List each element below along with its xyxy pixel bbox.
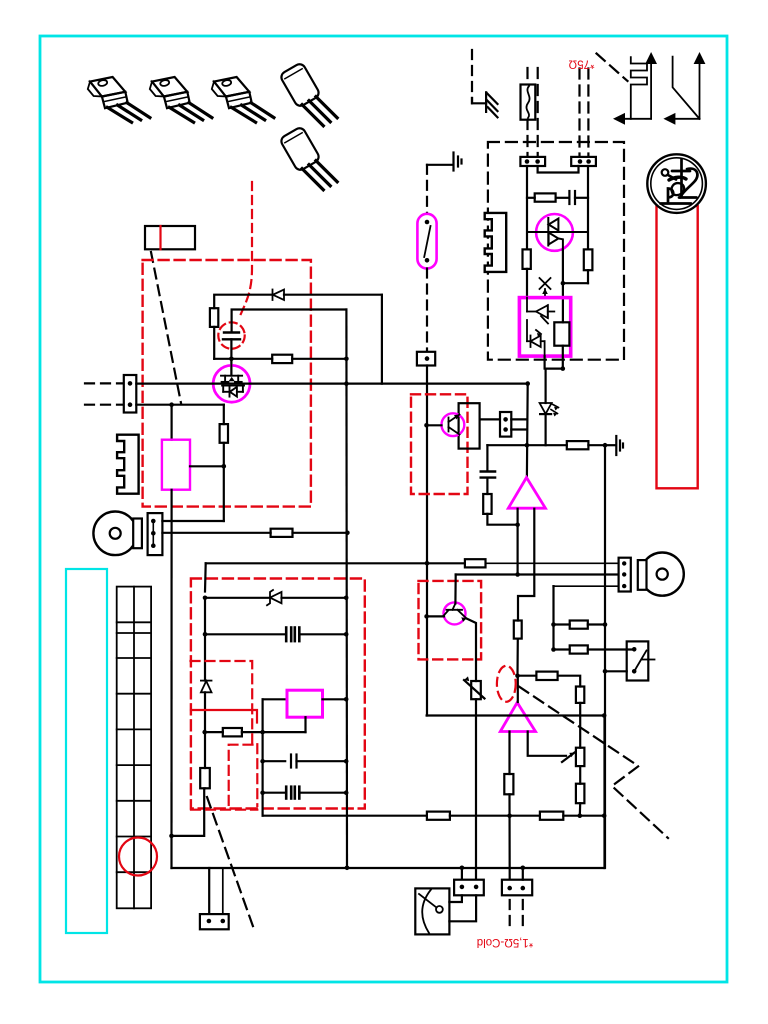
- zener red box2 dashed: [191, 579, 365, 809]
- tuner module dashed box: [488, 142, 624, 360]
- wire: [563, 815, 604, 817]
- node: [602, 713, 607, 718]
- resistor R3: [584, 249, 593, 283]
- resistor R14: [536, 672, 557, 680]
- node: [222, 464, 227, 469]
- wire (heatsink arm): [480, 418, 500, 420]
- wire: [381, 295, 383, 384]
- resistor R19: [540, 812, 563, 820]
- wire: [292, 358, 346, 360]
- wire (Q1 base): [427, 424, 442, 426]
- svg-text:*1,5Ω-Cold: *1,5Ω-Cold: [477, 936, 534, 948]
- resistor R7: [271, 529, 293, 537]
- node: [603, 669, 608, 674]
- speaker SP1: [93, 512, 142, 556]
- wire (row to ground): [487, 444, 566, 446]
- connector KB: [502, 880, 532, 896]
- wire: [517, 676, 519, 702]
- wire: [214, 358, 272, 360]
- wire (opamp input vertical): [526, 384, 529, 477]
- wire (Q2 base): [427, 615, 444, 617]
- wire: [475, 699, 477, 880]
- highlight dashed red ellipse: [497, 666, 516, 702]
- wire (audio row2): [456, 573, 619, 575]
- IC magenta box U3: [162, 440, 190, 490]
- wire: [263, 698, 287, 700]
- meter M1: [415, 888, 449, 934]
- wire: [162, 520, 223, 522]
- wire (Q2 emitter): [467, 619, 477, 682]
- wire: [516, 509, 518, 575]
- resistor R21: [570, 645, 588, 653]
- ground symbol (right): [605, 436, 623, 455]
- wire: [263, 792, 286, 794]
- wire (dashed drop to chassis ground): [471, 50, 473, 103]
- node: [345, 866, 350, 871]
- node: [561, 281, 566, 286]
- wire: [214, 295, 272, 309]
- wire: [554, 648, 570, 650]
- highlight red circle: [119, 838, 157, 876]
- wire: [487, 514, 517, 525]
- wire: [222, 868, 224, 914]
- switch S2: [627, 641, 655, 680]
- connector K1: [520, 157, 545, 166]
- MOSFET symbol: [221, 359, 244, 397]
- resistor R10: [514, 621, 522, 639]
- transistor package Q-pkg1 (TO-220): [88, 77, 150, 122]
- node: [521, 866, 526, 871]
- wire (main row): [136, 383, 527, 385]
- wire: [527, 197, 535, 199]
- wire: [461, 868, 463, 880]
- speaker SP2: [638, 553, 684, 596]
- node: [551, 622, 556, 627]
- node: [515, 522, 520, 527]
- wire: [556, 197, 570, 199]
- connector KA: [454, 880, 484, 896]
- wire: [190, 465, 224, 467]
- junction box: [417, 352, 435, 366]
- wire: [449, 895, 462, 902]
- wire: [511, 428, 527, 430]
- highlight circle (capacitor): [218, 322, 244, 348]
- output red dashed box (Q2): [419, 581, 482, 660]
- triac circle U1: [536, 214, 573, 251]
- resistor R2: [523, 249, 531, 297]
- wire (audio row3): [554, 585, 619, 587]
- node: [602, 813, 607, 818]
- zener D2: [267, 590, 282, 605]
- brand logo ring: [647, 154, 706, 488]
- wire: [579, 803, 582, 816]
- wire: [552, 585, 554, 587]
- wire: [486, 562, 619, 564]
- wire: [587, 166, 589, 249]
- wire (long mid vertical): [345, 310, 348, 868]
- node: [424, 614, 429, 619]
- node: [551, 647, 556, 652]
- transistor package Q-pkg5 (TO-126): [279, 125, 337, 197]
- wire: [213, 327, 215, 359]
- wire: [526, 166, 528, 249]
- transistor package Q-pkg2 (TO-220): [150, 77, 212, 122]
- wire: [232, 310, 347, 332]
- resistor R8: [567, 441, 589, 449]
- wire: [297, 760, 347, 762]
- wire: [518, 675, 537, 677]
- node: [260, 790, 265, 795]
- wire: [588, 444, 605, 446]
- resistor R6: [220, 424, 228, 443]
- wire: [172, 788, 206, 836]
- wire: [204, 634, 206, 680]
- node: [515, 572, 520, 577]
- resistor R15: [576, 687, 584, 703]
- node: [344, 596, 349, 601]
- connector K7: [200, 914, 229, 929]
- wire: [588, 623, 605, 625]
- resistor R5: [272, 355, 292, 363]
- wire: [323, 698, 347, 700]
- resistor R20: [570, 621, 588, 629]
- wire (dashed diagonal in box1): [151, 252, 181, 403]
- wire (link K1-K2): [538, 166, 579, 173]
- connector K5: [619, 558, 631, 592]
- capacitor C3: [481, 445, 495, 494]
- heatsink rect: [459, 403, 480, 448]
- wire: [242, 731, 306, 733]
- wire: [604, 445, 606, 868]
- wire: [588, 648, 634, 650]
- wire (to LED): [544, 369, 546, 403]
- resistor R18: [427, 812, 450, 820]
- node: [344, 381, 349, 386]
- comb shape (left): [117, 435, 139, 494]
- transistor package Q-pkg3 (TO-220): [212, 77, 274, 122]
- wire: [449, 895, 476, 921]
- wire: [299, 633, 346, 635]
- trimmer P2: [562, 748, 584, 766]
- wire: [516, 639, 518, 676]
- wire (long left vertical): [170, 490, 172, 868]
- wire (dashed stub2): [85, 404, 124, 406]
- wire: [552, 586, 554, 649]
- wire: [293, 532, 348, 534]
- node: [169, 834, 174, 839]
- transistor package Q-pkg4 (TO-126): [279, 61, 337, 133]
- regulator magenta box U4: [287, 690, 323, 717]
- MOSFET circle U2: [213, 365, 250, 402]
- wire (triac gate): [562, 250, 564, 283]
- logo glyph: [661, 160, 698, 204]
- wire: [603, 716, 605, 869]
- wire: [304, 717, 306, 732]
- wire: [299, 792, 346, 794]
- diode D3: [201, 681, 212, 693]
- capacitor C4: [286, 628, 299, 642]
- driver red dashed box (Q1): [411, 394, 468, 494]
- wire (dashed to switch): [426, 165, 428, 214]
- IF comb shape (in tuner box): [485, 213, 507, 272]
- wire: [205, 597, 269, 599]
- resistor R16: [576, 784, 585, 804]
- wire: [204, 692, 206, 768]
- wire: [508, 794, 510, 879]
- IF response curve symbol: [613, 52, 657, 125]
- resistor R12: [223, 728, 242, 736]
- wire (T2 feedback): [528, 732, 566, 756]
- resistor R1: [535, 193, 556, 201]
- wire (audio row1): [206, 562, 465, 564]
- wire: [605, 670, 627, 672]
- connector K2: [571, 157, 596, 166]
- battery ladder: [117, 587, 151, 909]
- wire (ground bus bottom): [172, 867, 605, 869]
- wire: [579, 703, 581, 748]
- node: [460, 866, 465, 871]
- wire (dashed stub1): [85, 382, 124, 384]
- wire: [204, 598, 206, 635]
- sweep curve symbol: [663, 52, 705, 125]
- wire: [263, 760, 286, 762]
- wire: [511, 418, 527, 420]
- wire: [171, 405, 173, 440]
- resistor R4: [210, 308, 218, 327]
- resistor R11: [465, 559, 486, 567]
- wire: [543, 356, 545, 369]
- wire: [562, 283, 564, 322]
- diode D1: [273, 290, 285, 301]
- wire: [162, 532, 270, 534]
- wire (T1 right chain): [518, 509, 534, 621]
- wire (dashed pointer bottom-left): [207, 797, 255, 932]
- wire: [450, 815, 540, 817]
- node: [578, 813, 583, 818]
- node: [507, 813, 512, 818]
- wire (second row): [136, 404, 224, 406]
- wire: [554, 623, 570, 625]
- wire: [284, 294, 382, 296]
- thyristor D4: [527, 298, 554, 324]
- wire (dashed pointer zigzag): [519, 687, 668, 838]
- control red dashed box1: [143, 260, 311, 507]
- opamp T1: [508, 478, 545, 509]
- node: [603, 443, 608, 448]
- diode D5: [527, 320, 545, 356]
- node: [525, 443, 530, 448]
- node: [561, 366, 566, 371]
- capacitor C1: [569, 191, 588, 204]
- opto module magenta box: [519, 298, 570, 357]
- resistor R9: [483, 494, 491, 514]
- wire: [544, 414, 546, 445]
- wire: [204, 563, 207, 591]
- capacitor C5: [291, 755, 297, 768]
- wire: [282, 597, 347, 599]
- node: [203, 596, 208, 601]
- trimmer P1: [464, 676, 485, 699]
- transistor Q2: [443, 602, 467, 624]
- connector K6: [124, 375, 137, 413]
- X mark (deleted part): [540, 278, 551, 298]
- wire (bus row mid): [427, 714, 605, 716]
- node: [260, 759, 265, 764]
- fuse holder box: [145, 226, 195, 249]
- node: [229, 357, 234, 362]
- connector K3: [500, 412, 511, 437]
- wire (dashed heater stubs): [510, 900, 523, 928]
- node: [260, 730, 265, 735]
- wire: [223, 405, 225, 424]
- node: [344, 357, 349, 362]
- wire (dashed below switch): [426, 269, 428, 352]
- node: [603, 622, 608, 627]
- triac symbol: [527, 218, 588, 250]
- capacitor C6: [286, 787, 299, 799]
- wire: [208, 868, 210, 914]
- wire (Q2 collector): [454, 575, 457, 604]
- opto detector rect: [554, 322, 569, 345]
- wire: [579, 766, 581, 784]
- wire (dashed antenna pair right): [578, 69, 580, 157]
- node: [344, 759, 349, 764]
- fuse F1 (thermal element): [521, 85, 536, 120]
- wire: [563, 282, 588, 284]
- wire (main vertical center): [426, 366, 428, 716]
- cyan panel strip: [66, 569, 107, 933]
- wire: [558, 676, 581, 687]
- wire (red dashed probe curve): [240, 182, 253, 317]
- node: [525, 381, 530, 386]
- connector K4: [148, 513, 163, 555]
- wire (dashed antenna pair left): [526, 68, 528, 157]
- ground symbol (mid): [427, 153, 462, 171]
- wire (T2 output): [508, 732, 510, 775]
- node: [203, 632, 208, 637]
- wire: [522, 868, 524, 880]
- wire: [562, 346, 564, 369]
- wire: [230, 339, 232, 359]
- wire (dashed diagonal top right): [597, 54, 628, 82]
- node: [515, 673, 520, 678]
- node: [345, 531, 350, 536]
- capacitor C2: [223, 333, 240, 340]
- chassis ground: [472, 92, 498, 117]
- node: [344, 632, 349, 637]
- LED D6: [540, 403, 559, 417]
- wire: [205, 633, 285, 635]
- svg-text:*75Ω: *75Ω: [568, 57, 594, 69]
- wire: [205, 731, 223, 733]
- resistor R13: [200, 768, 210, 788]
- node: [202, 730, 207, 735]
- wire: [546, 368, 563, 370]
- node: [169, 402, 174, 407]
- wire (into MOSFET): [230, 359, 232, 375]
- node: [425, 561, 430, 566]
- node: [344, 697, 349, 702]
- opamp T2: [500, 703, 535, 732]
- transistor Q1: [442, 413, 465, 436]
- node: [344, 790, 349, 795]
- switch S1 stadium: [417, 214, 436, 269]
- node: [424, 423, 429, 428]
- resistor R17: [504, 774, 513, 794]
- wire: [223, 443, 225, 521]
- inner red dashed box3: [191, 661, 258, 810]
- wire (supply bus): [263, 815, 427, 817]
- wire: [262, 699, 264, 815]
